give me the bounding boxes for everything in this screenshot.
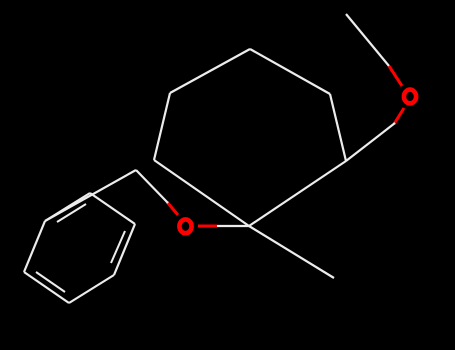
atom O2 (benzyloxy oxygen) xyxy=(179,219,191,233)
ring: central cyclohexane top-left edge xyxy=(170,49,250,93)
ring: phenyl aromatic inner line 2 xyxy=(111,231,125,263)
ring: central cyclohexane top-right edge xyxy=(250,49,330,94)
wire: methyl to O1 red stub near O1 xyxy=(389,66,402,86)
wire: O1 to C2 white part xyxy=(346,123,395,161)
ring: central cyclohexane right lower edge C2-C1 xyxy=(249,161,346,226)
wire: C1 to O2 white half xyxy=(217,225,249,227)
atom O1 (methoxy oxygen) xyxy=(404,90,416,104)
wire: C1 to O2 red half near O2 xyxy=(198,225,217,228)
ring: phenyl edge ipso to B2 xyxy=(24,221,45,272)
wire: O1 to C2 red half xyxy=(394,108,404,124)
ring: phenyl edge B5 to B6 xyxy=(90,193,135,224)
ring: phenyl edge B2 to B3 xyxy=(24,272,69,303)
wire: benzyl CH2 to phenyl ipso xyxy=(45,170,136,221)
ring: phenyl edge B4 to B5 xyxy=(114,224,135,275)
ring: phenyl aromatic inner line 1 xyxy=(36,272,65,292)
wire: C1 to methyl V4 xyxy=(249,226,334,278)
wire: O2 to benzyl CH2 red half xyxy=(167,202,178,215)
ring: central cyclohexane left upper edge xyxy=(154,93,170,160)
ring: central cyclohexane right upper edge xyxy=(330,94,346,161)
ring: phenyl edge B3 to B4 xyxy=(69,275,114,303)
wire: methyl C-H3C end to O1 white half xyxy=(346,14,389,66)
wire: O2 to benzyl CH2 white part xyxy=(136,170,168,203)
ring: phenyl aromatic inner line 3 xyxy=(57,204,86,222)
ring: phenyl edge B6 to ipso xyxy=(45,193,90,221)
ring: central cyclohexane left lower edge xyxy=(154,160,249,226)
